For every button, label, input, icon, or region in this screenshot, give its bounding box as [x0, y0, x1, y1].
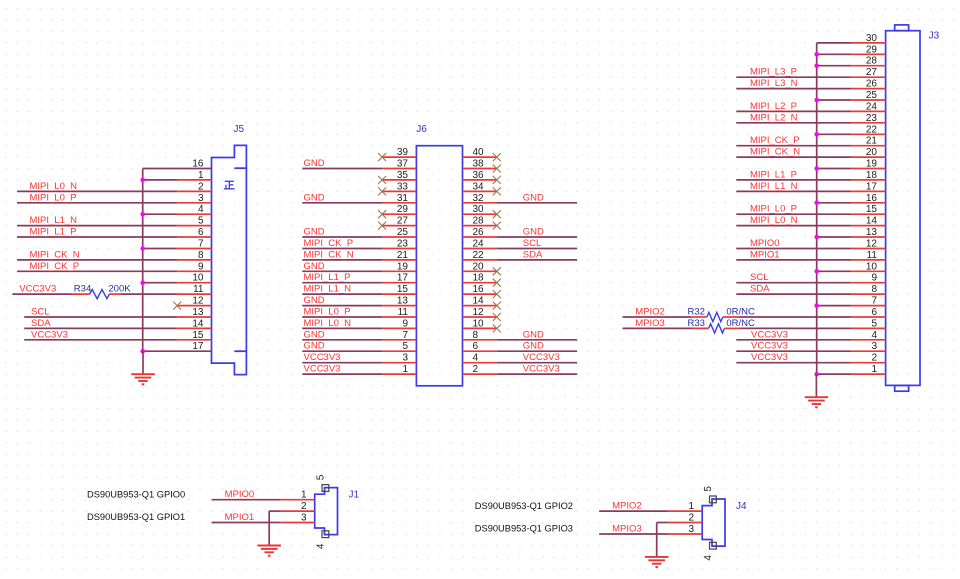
svg-text:VCC3V3: VCC3V3 — [751, 341, 788, 352]
svg-text:J4: J4 — [736, 501, 747, 512]
wire net MIPI_CK_N to J5 pin8 — [17, 259, 177, 261]
wire net GND to J6 pin13 — [302, 305, 382, 307]
svg-text:14: 14 — [866, 216, 878, 227]
wire net SCL from J6 pin24 — [497, 248, 577, 250]
J6 pin 18 — [463, 282, 497, 284]
svg-text:5: 5 — [871, 318, 877, 329]
svg-text:MIPI_CK_P: MIPI_CK_P — [304, 238, 354, 249]
junction at J3 GND bus pin16 — [814, 201, 819, 206]
J6 pin 2 — [463, 373, 497, 375]
svg-text:MIPI_L1_P: MIPI_L1_P — [750, 169, 797, 180]
J3 pin 23 — [851, 122, 885, 124]
svg-text:VCC3V3: VCC3V3 — [304, 364, 341, 375]
wire net MPIO0 to J3 pin12 — [736, 248, 851, 250]
svg-text:29: 29 — [397, 204, 409, 215]
wire net VCC3V3 to J6 pin1 — [302, 373, 382, 375]
J5 pin 2 — [177, 190, 211, 192]
svg-text:7: 7 — [198, 239, 204, 250]
svg-text:MIPI_CK_N: MIPI_CK_N — [30, 249, 80, 260]
wire net GND to J6 pin7 — [302, 339, 382, 341]
wire net MIPI_L1_P to J3 pin18 — [736, 179, 851, 181]
J5 pin 6 — [177, 236, 211, 238]
wire J3 pin30 to GND bus — [817, 42, 852, 44]
J5 pin 13 — [177, 316, 211, 318]
ground symbol at J1 pin2 — [268, 511, 270, 545]
J3 pin 13 — [851, 236, 885, 238]
J5 pin 12 — [177, 305, 211, 307]
svg-text:15: 15 — [192, 330, 204, 341]
J5 pin 4 — [177, 213, 211, 215]
J5 pin 8 — [177, 259, 211, 261]
svg-text:23: 23 — [397, 239, 409, 250]
J6 pin 5 — [382, 350, 416, 352]
svg-text:GND: GND — [304, 295, 325, 306]
wire net GND to J6 pin25 — [302, 236, 382, 238]
connector J3 bottom tab — [895, 385, 909, 391]
svg-text:J5: J5 — [234, 124, 245, 135]
svg-text:MIPI_CK_N: MIPI_CK_N — [304, 249, 354, 260]
resistor R32 body — [707, 312, 723, 321]
J6 pin 35 — [382, 179, 416, 181]
svg-text:6: 6 — [473, 341, 479, 352]
wire J3 pin1 to GND bus — [817, 373, 852, 375]
J1 pin 2 — [280, 510, 314, 512]
svg-text:12: 12 — [192, 296, 204, 307]
svg-text:2: 2 — [301, 501, 307, 512]
wire net MIPI_L0_P to J6 pin11 — [302, 316, 382, 318]
svg-text:R32: R32 — [688, 307, 705, 318]
ground symbol below J5 GND bus — [142, 351, 144, 374]
J3 pin 21 — [851, 145, 885, 147]
svg-text:0R/NC: 0R/NC — [726, 307, 755, 318]
J6 pin 3 — [382, 362, 416, 364]
svg-text:MPIO2: MPIO2 — [612, 501, 642, 512]
no-connect X at J6 pin39 — [378, 153, 386, 161]
svg-text:VCC3V3: VCC3V3 — [751, 329, 788, 340]
wire net MIPI_L2_P to J3 pin24 — [736, 110, 851, 112]
J3 pin 24 — [851, 110, 885, 112]
svg-text:20: 20 — [473, 261, 485, 272]
svg-text:VCC3V3: VCC3V3 — [304, 352, 341, 363]
junction at J3 GND bus pin22 — [814, 132, 819, 137]
svg-text:SCL: SCL — [31, 307, 49, 318]
wire J3 pin25 to GND bus — [817, 99, 852, 101]
no-connect X at J6 pin33 — [378, 187, 386, 195]
wire J4 pin2 to ground — [657, 522, 668, 524]
svg-text:3: 3 — [198, 193, 204, 204]
J6 pin 15 — [382, 293, 416, 295]
junction at J5 GND bus pin4 — [140, 212, 145, 217]
J6 pin 34 — [463, 190, 497, 192]
J6 pin 24 — [463, 248, 497, 250]
svg-text:12: 12 — [473, 307, 485, 318]
svg-text:MPIO1: MPIO1 — [750, 249, 780, 260]
J6 pin 31 — [382, 202, 416, 204]
junction at J3 GND bus pin29 — [814, 52, 819, 57]
junction at J3 GND bus pin10 — [814, 269, 819, 274]
svg-text:21: 21 — [866, 136, 878, 147]
svg-text:MIPI_L0_P: MIPI_L0_P — [750, 204, 797, 215]
svg-text:8: 8 — [473, 330, 479, 341]
wire net MPIO1 to J3 pin11 — [736, 259, 851, 261]
wire net GND to J6 pin5 — [302, 350, 382, 352]
no-connect X at J6 pin40 — [493, 153, 501, 161]
wire net VCC3V3 to J5 pin15 — [24, 339, 177, 341]
wire net MPIO3 to J4 pin3 — [599, 533, 668, 535]
svg-text:5: 5 — [703, 486, 714, 492]
svg-text:DS90UB953-Q1 GPIO3: DS90UB953-Q1 GPIO3 — [475, 523, 573, 533]
wire net SDA to J3 pin8 — [736, 293, 851, 295]
wire J5 pin10 to GND bus — [143, 282, 178, 284]
wire net GND to J6 pin31 — [302, 202, 382, 204]
svg-text:9: 9 — [402, 318, 408, 329]
junction at J3 GND bus pin1 — [814, 372, 819, 377]
svg-text:30: 30 — [866, 33, 878, 44]
junction at J5 GND bus pin1 — [140, 178, 145, 183]
svg-text:GND: GND — [304, 192, 325, 203]
J3 pin 3 — [851, 350, 885, 352]
svg-text:29: 29 — [866, 44, 878, 55]
svg-text:14: 14 — [192, 318, 204, 329]
junction at J5 GND bus pin17 — [140, 349, 145, 354]
svg-text:30: 30 — [473, 204, 485, 215]
svg-text:4: 4 — [703, 555, 714, 561]
wire J3 pin7 to GND bus — [817, 305, 852, 307]
svg-text:R34: R34 — [74, 284, 91, 295]
J6 pin 6 — [463, 350, 497, 352]
wire net MIPI_CK_N to J3 pin20 — [736, 156, 851, 158]
no-connect X at J6 pin30 — [493, 210, 501, 218]
svg-text:5: 5 — [315, 474, 326, 480]
J6 pin 10 — [463, 327, 497, 329]
svg-text:4: 4 — [473, 353, 479, 364]
connector J4 pin 4 mounting pad — [710, 542, 717, 549]
wire net MIPI_L2_N to J3 pin23 — [736, 122, 851, 124]
J5 pin 1 — [177, 179, 211, 181]
svg-text:VCC3V3: VCC3V3 — [523, 364, 560, 375]
svg-text:31: 31 — [397, 193, 409, 204]
svg-text:1: 1 — [688, 501, 694, 512]
J5 pin 15 — [177, 339, 211, 341]
J3 pin 9 — [851, 282, 885, 284]
J5 pin 11 — [177, 293, 211, 295]
wire MPIO2 to resistor R32 — [623, 316, 691, 318]
no-connect X at J6 pin16 — [493, 290, 501, 298]
J3 pin 14 — [851, 225, 885, 227]
wire net MIPI_CK_P to J5 pin9 — [17, 270, 177, 272]
J5 pin 3 — [177, 202, 211, 204]
resistor R33 body — [709, 324, 725, 333]
J1 pin 1 — [280, 499, 314, 501]
svg-text:MPIO3: MPIO3 — [635, 318, 665, 329]
svg-text:MIPI_L1_N: MIPI_L1_N — [30, 215, 78, 226]
svg-text:MIPI_L3_N: MIPI_L3_N — [750, 78, 798, 89]
wire J3 pin29 to GND bus — [817, 53, 852, 55]
wire net MIPI_L1_N to J6 pin15 — [302, 293, 382, 295]
J3 pin 16 — [851, 202, 885, 204]
J6 pin 30 — [463, 213, 497, 215]
J3 pin 4 — [851, 339, 885, 341]
svg-text:2: 2 — [871, 353, 877, 364]
svg-text:10: 10 — [192, 273, 204, 284]
svg-text:2: 2 — [198, 181, 204, 192]
no-connect X at J6 pin18 — [493, 279, 501, 287]
svg-text:3: 3 — [402, 353, 408, 364]
J6 pin 20 — [463, 270, 497, 272]
svg-text:GND: GND — [523, 227, 544, 238]
wire net MIPI_L0_P to J5 pin3 — [17, 202, 177, 204]
J6 pin 32 — [463, 202, 497, 204]
svg-text:GND: GND — [304, 158, 325, 169]
connector J3 top tab — [895, 25, 909, 31]
wire net GND from J6 pin8 — [497, 339, 577, 341]
svg-text:VCC3V3: VCC3V3 — [31, 329, 68, 340]
svg-text:22: 22 — [866, 124, 878, 135]
J6 pin 26 — [463, 236, 497, 238]
svg-text:3: 3 — [871, 341, 877, 352]
wire net MIPI_CK_N to J6 pin21 — [302, 259, 382, 261]
svg-text:4: 4 — [315, 543, 326, 549]
svg-text:23: 23 — [866, 113, 878, 124]
svg-text:7: 7 — [402, 330, 408, 341]
J3 pin 17 — [851, 190, 885, 192]
J6 pin 37 — [382, 168, 416, 170]
no-connect X at J6 pin14 — [493, 302, 501, 310]
svg-text:15: 15 — [397, 284, 409, 295]
J6 pin 14 — [463, 305, 497, 307]
resistor R34 body — [90, 290, 110, 299]
svg-text:R33: R33 — [688, 318, 705, 329]
resistor R33 right lead — [725, 327, 741, 329]
wire net MPIO0 to J1 pin1 — [212, 499, 281, 501]
wire net MIPI_L1_N to J5 pin5 — [17, 225, 177, 227]
svg-text:GND: GND — [304, 261, 325, 272]
svg-text:1: 1 — [198, 170, 204, 181]
connector J4 body — [702, 499, 725, 546]
connector J5 body — [212, 145, 247, 374]
wire VCC3V3 to resistor R34 — [12, 293, 72, 295]
svg-text:MIPI_L0_P: MIPI_L0_P — [30, 192, 77, 203]
svg-text:27: 27 — [397, 216, 409, 227]
wire resistor R33 to J3 pin5 — [740, 327, 851, 329]
svg-text:25: 25 — [866, 90, 878, 101]
connector J1 pin 5 mounting pad — [322, 485, 329, 492]
svg-text:1: 1 — [402, 364, 408, 375]
svg-text:0R/NC: 0R/NC — [726, 318, 755, 329]
svg-text:MPIO1: MPIO1 — [225, 512, 255, 523]
J3 pin 12 — [851, 248, 885, 250]
junction at J3 GND bus pin28 — [814, 63, 819, 68]
J3 pin 8 — [851, 293, 885, 295]
J3 pin 25 — [851, 99, 885, 101]
wire net GND to J6 pin19 — [302, 270, 382, 272]
svg-text:6: 6 — [198, 227, 204, 238]
svg-text:13: 13 — [866, 227, 878, 238]
wire J1 pin2 to ground — [269, 510, 280, 512]
svg-text:MIPI_L2_P: MIPI_L2_P — [750, 101, 797, 112]
svg-text:VCC3V3: VCC3V3 — [523, 352, 560, 363]
junction at J3 GND bus pin7 — [814, 303, 819, 308]
svg-text:MIPI_CK_P: MIPI_CK_P — [30, 261, 80, 272]
svg-text:MIPI_L0_P: MIPI_L0_P — [304, 307, 351, 318]
svg-text:MIPI_L0_N: MIPI_L0_N — [750, 215, 798, 226]
wire net MIPI_L0_N to J3 pin14 — [736, 225, 851, 227]
svg-text:9: 9 — [871, 273, 877, 284]
J6 pin 19 — [382, 270, 416, 272]
wire net MIPI_L0_N to J6 pin9 — [302, 327, 382, 329]
wire J5 pin17 to GND bus — [143, 350, 212, 352]
svg-text:24: 24 — [866, 101, 878, 112]
J6 pin 28 — [463, 225, 497, 227]
wire J5 pin4 to GND bus — [143, 213, 178, 215]
resistor R32 left lead — [691, 316, 707, 318]
svg-text:J6: J6 — [416, 124, 427, 135]
junction at J3 GND bus pin25 — [814, 98, 819, 103]
J6 pin 25 — [382, 236, 416, 238]
J1 pin 3 — [280, 522, 314, 524]
connector J3 body — [886, 31, 920, 386]
resistor R32 right lead — [723, 316, 739, 318]
svg-text:VCC3V3: VCC3V3 — [19, 284, 56, 295]
svg-text:34: 34 — [473, 181, 485, 192]
J5 pin 9 — [177, 270, 211, 272]
J6 pin 12 — [463, 316, 497, 318]
svg-text:MIPI_L0_N: MIPI_L0_N — [30, 181, 78, 192]
J5 pin 7 — [177, 248, 211, 250]
svg-text:11: 11 — [867, 250, 878, 261]
svg-text:13: 13 — [397, 296, 409, 307]
J6 pin 40 — [463, 156, 497, 158]
J3 pin 10 — [851, 270, 885, 272]
junction at J3 GND bus pin13 — [814, 235, 819, 240]
J3 pin 2 — [851, 362, 885, 364]
svg-text:DS90UB953-Q1 GPIO2: DS90UB953-Q1 GPIO2 — [475, 501, 573, 511]
svg-text:35: 35 — [397, 170, 409, 181]
wire net MIPI_CK_P to J3 pin21 — [736, 145, 851, 147]
svg-text:J1: J1 — [349, 490, 360, 501]
svg-text:32: 32 — [473, 193, 485, 204]
svg-text:19: 19 — [866, 159, 878, 170]
J3 pin 5 — [851, 327, 885, 329]
svg-text:10: 10 — [473, 318, 485, 329]
wire J3 pin22 to GND bus — [817, 133, 852, 135]
no-connect X at J6 pin27 — [378, 222, 386, 230]
svg-text:DS90UB953-Q1 GPIO0: DS90UB953-Q1 GPIO0 — [87, 490, 185, 500]
connector J4 pin 5 mounting pad — [710, 496, 717, 503]
wire J3 pin28 to GND bus — [817, 65, 852, 67]
svg-text:19: 19 — [397, 261, 409, 272]
wire J5 pin7 to GND bus — [143, 248, 178, 250]
svg-text:2: 2 — [688, 513, 694, 524]
wire net MIPI_L3_P to J3 pin27 — [736, 76, 851, 78]
ground symbol below J3 GND bus — [815, 374, 817, 397]
wire net MIPI_L1_P to J6 pin17 — [302, 282, 382, 284]
svg-text:1: 1 — [871, 364, 877, 375]
wire net MIPI_L3_N to J3 pin26 — [736, 88, 851, 90]
svg-text:16: 16 — [866, 193, 878, 204]
wire net MIPI_L1_P to J5 pin6 — [17, 236, 177, 238]
svg-text:MPIO0: MPIO0 — [225, 489, 255, 500]
J3 pin 19 — [851, 168, 885, 170]
svg-text:7: 7 — [871, 296, 877, 307]
wire net MIPI_L1_N to J3 pin17 — [736, 190, 851, 192]
svg-text:1: 1 — [301, 490, 307, 501]
wire J5 pin16 to GND bus — [143, 168, 212, 170]
J6 pin 27 — [382, 225, 416, 227]
svg-text:MIPI_L1_N: MIPI_L1_N — [304, 284, 352, 295]
wire MPIO3 to resistor R33 — [623, 327, 693, 329]
connector J5 bottom mounting tab — [234, 350, 246, 352]
svg-text:GND: GND — [304, 329, 325, 340]
J4 pin 3 — [668, 533, 702, 535]
svg-text:MPIO0: MPIO0 — [750, 238, 780, 249]
no-connect X at J6 pin38 — [493, 165, 501, 173]
connector J1 body — [315, 488, 338, 535]
svg-text:40: 40 — [473, 147, 485, 158]
svg-text:MIPI_CK_P: MIPI_CK_P — [750, 135, 800, 146]
svg-text:GND: GND — [304, 341, 325, 352]
J3 pin 18 — [851, 179, 885, 181]
svg-text:33: 33 — [397, 181, 409, 192]
svg-text:15: 15 — [866, 204, 878, 215]
resistor R34 right lead — [109, 293, 120, 295]
svg-text:18: 18 — [866, 170, 878, 181]
J3 pin 22 — [851, 133, 885, 135]
svg-text:MIPI_L3_P: MIPI_L3_P — [750, 67, 797, 78]
svg-text:MIPI_L1_N: MIPI_L1_N — [750, 181, 798, 192]
svg-text:MIPI_L1_P: MIPI_L1_P — [304, 272, 351, 283]
J4 pin 1 — [668, 510, 702, 512]
svg-text:MPIO3: MPIO3 — [612, 524, 642, 535]
svg-text:3: 3 — [688, 524, 694, 535]
no-connect X at J6 pin36 — [493, 176, 501, 184]
J6 pin 33 — [382, 190, 416, 192]
svg-text:17: 17 — [866, 181, 878, 192]
junction at J3 GND bus pin19 — [814, 166, 819, 171]
svg-text:SDA: SDA — [750, 284, 770, 295]
wire net MIPI_L0_P to J3 pin15 — [736, 213, 851, 215]
svg-text:20: 20 — [866, 147, 878, 158]
svg-text:VCC3V3: VCC3V3 — [751, 352, 788, 363]
J4 pin 2 — [668, 522, 702, 524]
no-connect X at J5 pin12 — [173, 302, 181, 310]
J3 pin 7 — [851, 305, 885, 307]
svg-text:25: 25 — [397, 227, 409, 238]
wire GND bus vertical at J3 — [816, 43, 818, 374]
no-connect X at J6 pin10 — [493, 324, 501, 332]
svg-text:10: 10 — [866, 261, 878, 272]
svg-text:11: 11 — [398, 307, 409, 318]
junction at J5 GND bus pin10 — [140, 280, 145, 285]
svg-text:2: 2 — [473, 364, 479, 375]
J6 pin 4 — [463, 362, 497, 364]
J3 pin 20 — [851, 156, 885, 158]
svg-text:8: 8 — [198, 250, 204, 261]
wire net GND from J6 pin6 — [497, 350, 577, 352]
svg-text:36: 36 — [473, 170, 485, 181]
J3 pin 30 — [851, 42, 885, 44]
svg-text:MIPI_L1_P: MIPI_L1_P — [30, 227, 77, 238]
wire resistor R32 to J3 pin6 — [739, 316, 851, 318]
svg-text:38: 38 — [473, 159, 485, 170]
no-connect X at J6 pin28 — [493, 222, 501, 230]
svg-text:MIPI_CK_N: MIPI_CK_N — [750, 147, 800, 158]
svg-text:MIPI_L2_N: MIPI_L2_N — [750, 112, 798, 123]
wire net SDA to J5 pin14 — [24, 327, 177, 329]
wire net GND from J6 pin32 — [497, 202, 577, 204]
svg-text:22: 22 — [473, 250, 485, 261]
wire resistor R34 to J5 pin11 — [121, 293, 178, 295]
